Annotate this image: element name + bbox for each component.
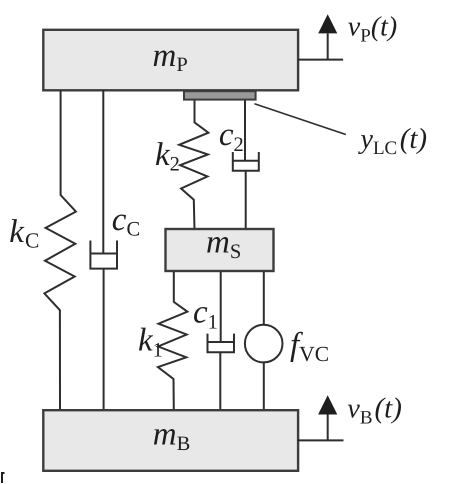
svg-text:c2: c2: [219, 117, 244, 156]
mass block mP: [43, 30, 298, 91]
force source fVC circle: [245, 325, 283, 363]
damper c2: [233, 101, 259, 230]
spring k2: [179, 101, 208, 230]
svg-text:k2: k2: [155, 137, 180, 176]
svg-text:yLC(t): yLC(t): [358, 123, 428, 159]
svg-text:c1: c1: [193, 295, 218, 334]
spring kC: [44, 90, 76, 410]
damper c1: [208, 272, 235, 410]
mass block mB: [43, 410, 298, 471]
svg-text:vB(t): vB(t): [347, 392, 402, 428]
arrow vB: [297, 395, 343, 440]
svg-text:cC: cC: [112, 202, 140, 241]
svg-text:kC: kC: [9, 214, 39, 253]
svg-text:vP(t): vP(t): [348, 12, 397, 47]
force source fVC wire bottom: [263, 362, 265, 410]
spring k1: [158, 272, 188, 410]
force source fVC wire top: [263, 272, 265, 325]
svg-text:fVC: fVC: [290, 327, 329, 366]
mass block mS: [166, 229, 274, 271]
arrow vP: [298, 14, 343, 59]
load cell block: [184, 91, 256, 99]
damper cC: [90, 90, 117, 410]
leader line to yLC: [255, 104, 346, 135]
stray caption mark bottom-left: [1, 473, 5, 483]
svg-text:k1: k1: [138, 323, 163, 362]
